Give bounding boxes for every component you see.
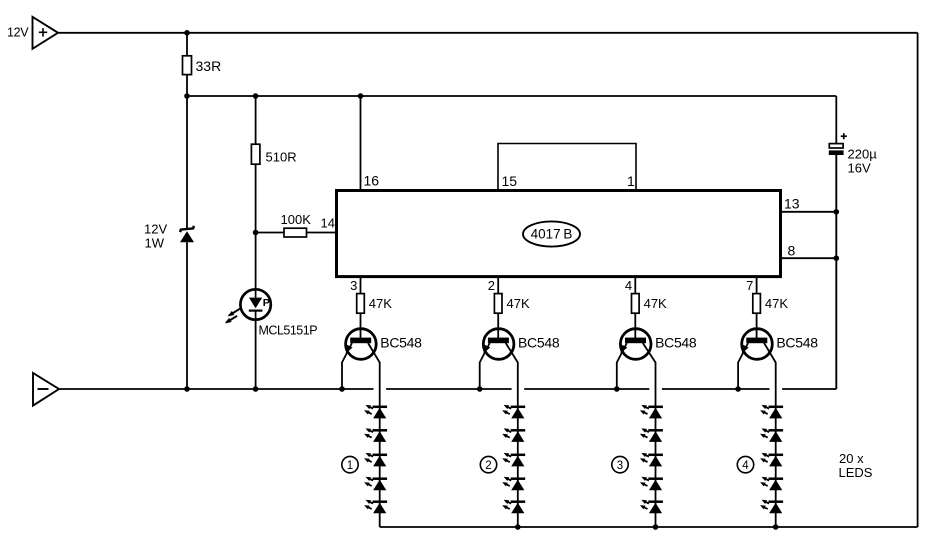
wire capacitor to 0V bus [835, 155, 837, 389]
terminal +12V supply (plus) [7, 17, 58, 49]
wire collector Q4 to LED chain 4 [775, 362, 777, 407]
wire 47K to Q1 base [360, 313, 362, 340]
LED D2.5 [502, 500, 525, 527]
chain 2 number badge [480, 456, 496, 472]
junction bottom bus / chain 4 [773, 524, 779, 530]
svg-text:LEDS: LEDS [839, 465, 873, 480]
pin 8 label [788, 243, 796, 259]
LED D4.3 [760, 453, 783, 479]
junction 0V bus / emitter Q3 [614, 386, 620, 392]
pin 13 label [784, 196, 800, 212]
svg-text:BC548: BC548 [655, 335, 697, 351]
pin 15 label [502, 173, 518, 189]
svg-text:47K: 47K [644, 296, 667, 311]
svg-text:P: P [263, 297, 270, 309]
svg-text:100K: 100K [281, 212, 312, 227]
svg-text:3: 3 [350, 278, 357, 293]
svg-text:BC548: BC548 [380, 335, 422, 351]
wire 47K to Q4 base [756, 313, 758, 340]
wire pins 15-1 link [498, 144, 636, 191]
wire collector Q2 to LED chain 2 [517, 362, 519, 407]
wire IC pin 3 [360, 277, 362, 294]
pin 14 label [321, 216, 335, 231]
LED D1.4 [364, 477, 387, 502]
svg-text:3: 3 [617, 460, 623, 472]
LED D2.3 [502, 453, 525, 479]
LED D3.3 [640, 453, 663, 479]
junction 0V bus / emitter Q1 [339, 386, 345, 392]
wire collector Q3 to LED chain 3 [655, 362, 657, 407]
junction pin 8 / cap line [834, 255, 840, 261]
wire 0V bus [59, 388, 836, 390]
svg-text:33R: 33R [196, 58, 222, 74]
capacitor C1 220µ 16V [829, 133, 877, 175]
junction 0V bus / emitter Q4 [735, 386, 741, 392]
LED D1.5 [364, 500, 387, 527]
pin 16 label [364, 173, 380, 189]
svg-text:1: 1 [347, 460, 353, 472]
svg-text:47K: 47K [507, 296, 530, 311]
wire bottom LED return bus [380, 526, 918, 528]
wire pin 16 [360, 96, 362, 191]
pin 2 label [488, 278, 495, 293]
LED D4.5 [760, 500, 783, 527]
wire collector Q1 to LED chain 1 [379, 362, 381, 407]
svg-text:510R: 510R [266, 150, 297, 165]
wire pin 13 [781, 211, 837, 213]
transistor Q2 BC548 [480, 329, 560, 363]
chain 4 number badge [737, 456, 753, 472]
junction bottom bus / chain 3 [653, 524, 659, 530]
svg-text:15: 15 [502, 173, 518, 189]
pin 7 label [746, 278, 753, 293]
resistor 510R [251, 96, 296, 233]
svg-text:2: 2 [485, 460, 491, 472]
svg-text:2: 2 [488, 278, 495, 293]
resistor R4 47K [753, 294, 789, 314]
LED D3.4 [640, 477, 663, 502]
wire right border return [917, 33, 919, 527]
svg-text:4: 4 [742, 460, 749, 472]
svg-text:20 x: 20 x [839, 451, 864, 466]
svg-text:12V: 12V [7, 26, 29, 40]
svg-text:220µ: 220µ [848, 147, 878, 162]
svg-text:BC548: BC548 [776, 335, 818, 351]
wire emitter Q4 to 0V bus [737, 362, 739, 389]
wire 47K to Q2 base [497, 313, 499, 340]
svg-text:14: 14 [321, 216, 335, 231]
wire emitter Q1 to 0V bus [341, 362, 343, 389]
svg-text:1W: 1W [145, 236, 165, 251]
LED D1.1 [364, 405, 387, 430]
svg-text:MCL5151P: MCL5151P [259, 324, 318, 338]
LED D1.3 [364, 453, 387, 479]
svg-text:16: 16 [364, 173, 380, 189]
svg-text:47K: 47K [765, 296, 788, 311]
IC U1 4017B [337, 191, 781, 277]
resistor R3 47K [632, 294, 668, 314]
junction 0V bus / zener [184, 386, 190, 392]
pin 1 label [627, 173, 635, 189]
resistor 33R [183, 33, 222, 96]
junction Vdd rail / pin 16 [358, 93, 364, 99]
resistor R2 47K [494, 294, 530, 314]
svg-text:4: 4 [625, 278, 632, 293]
junction Vdd rail / zener [184, 93, 190, 99]
junction 0V bus / emitter Q2 [477, 386, 483, 392]
svg-text:12V: 12V [144, 222, 167, 237]
junction +12V rail / 33R [184, 30, 190, 36]
LED D4.1 [760, 405, 783, 430]
wire emitter Q3 to 0V bus [616, 362, 618, 389]
chain 1 number badge [342, 456, 358, 472]
zener diode 12V 1W [144, 96, 194, 389]
LED D2.4 [502, 477, 525, 502]
svg-text:13: 13 [784, 196, 800, 212]
svg-text:4017 B: 4017 B [531, 227, 573, 242]
transistor Q1 BC548 [342, 329, 422, 363]
label LED count [839, 451, 873, 480]
svg-text:1: 1 [627, 173, 635, 189]
wire top +12V rail [58, 32, 918, 34]
junction Vdd rail / 510R [253, 93, 259, 99]
resistor R1 47K [357, 294, 393, 314]
transistor Q3 BC548 [617, 329, 697, 363]
LED D2.1 [502, 405, 525, 430]
svg-text:8: 8 [788, 243, 796, 259]
resistor 100K [256, 212, 337, 237]
LED D4.2 [760, 428, 783, 454]
LED D3.2 [640, 428, 663, 454]
wire Vdd rail [187, 96, 836, 144]
chain 3 number badge [612, 456, 628, 472]
junction pin 13 / cap line [834, 209, 840, 215]
terminal 0V supply (minus) [33, 373, 59, 406]
wire pin 8 [781, 257, 837, 259]
wire IC pin 4 [634, 277, 636, 294]
wire 510R to MCL5151P [255, 233, 257, 291]
junction bottom bus / chain 2 [515, 524, 521, 530]
svg-text:7: 7 [746, 278, 753, 293]
transistor Q4 BC548 [738, 329, 818, 363]
LED D3.1 [640, 405, 663, 430]
wire 47K to Q3 base [634, 313, 636, 340]
LED MCL5151P [225, 289, 317, 389]
junction 0V bus / MCL5151P [253, 386, 259, 392]
LED D4.4 [760, 477, 783, 502]
LED D2.2 [502, 428, 525, 454]
LED D1.2 [364, 428, 387, 454]
junction 510R / 100K [253, 230, 259, 236]
svg-text:16V: 16V [848, 161, 871, 176]
svg-text:47K: 47K [369, 296, 392, 311]
LED D3.5 [640, 500, 663, 527]
wire IC pin 2 [497, 277, 499, 294]
svg-text:BC548: BC548 [518, 335, 560, 351]
pin 4 label [625, 278, 632, 293]
pin 3 label [350, 278, 357, 293]
wire IC pin 7 [756, 277, 758, 294]
label 4017B in ellipse [523, 221, 580, 246]
wire emitter Q2 to 0V bus [479, 362, 481, 389]
